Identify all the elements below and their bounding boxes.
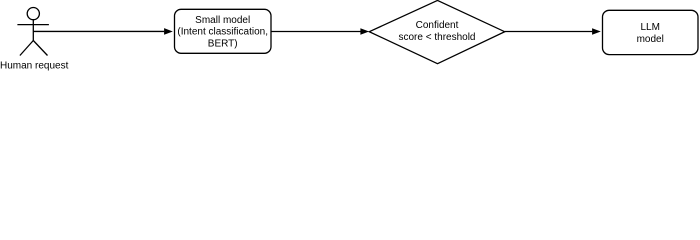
process box: Small model (Intent classification, BERT) xyxy=(175,9,272,53)
wire: decision diamond to LLM model box xyxy=(505,28,601,35)
svg-text:score < threshold: score < threshold xyxy=(399,32,476,43)
actor: Human request (stick figure) xyxy=(17,8,49,56)
decision diamond: Confident score < threshold xyxy=(369,0,504,63)
svg-text:Small model: Small model xyxy=(195,15,250,26)
process box: LLM model xyxy=(603,10,699,54)
svg-text:LLM: LLM xyxy=(640,22,659,33)
svg-text:Human request: Human request xyxy=(0,61,69,72)
wire: Small model box to decision diamond xyxy=(271,28,369,35)
svg-text:BERT): BERT) xyxy=(208,39,238,50)
svg-text:Confident: Confident xyxy=(416,20,459,31)
svg-text:(Intent classification,: (Intent classification, xyxy=(177,27,268,38)
svg-text:model: model xyxy=(637,34,664,45)
wire: actor to Small model box xyxy=(33,28,173,35)
